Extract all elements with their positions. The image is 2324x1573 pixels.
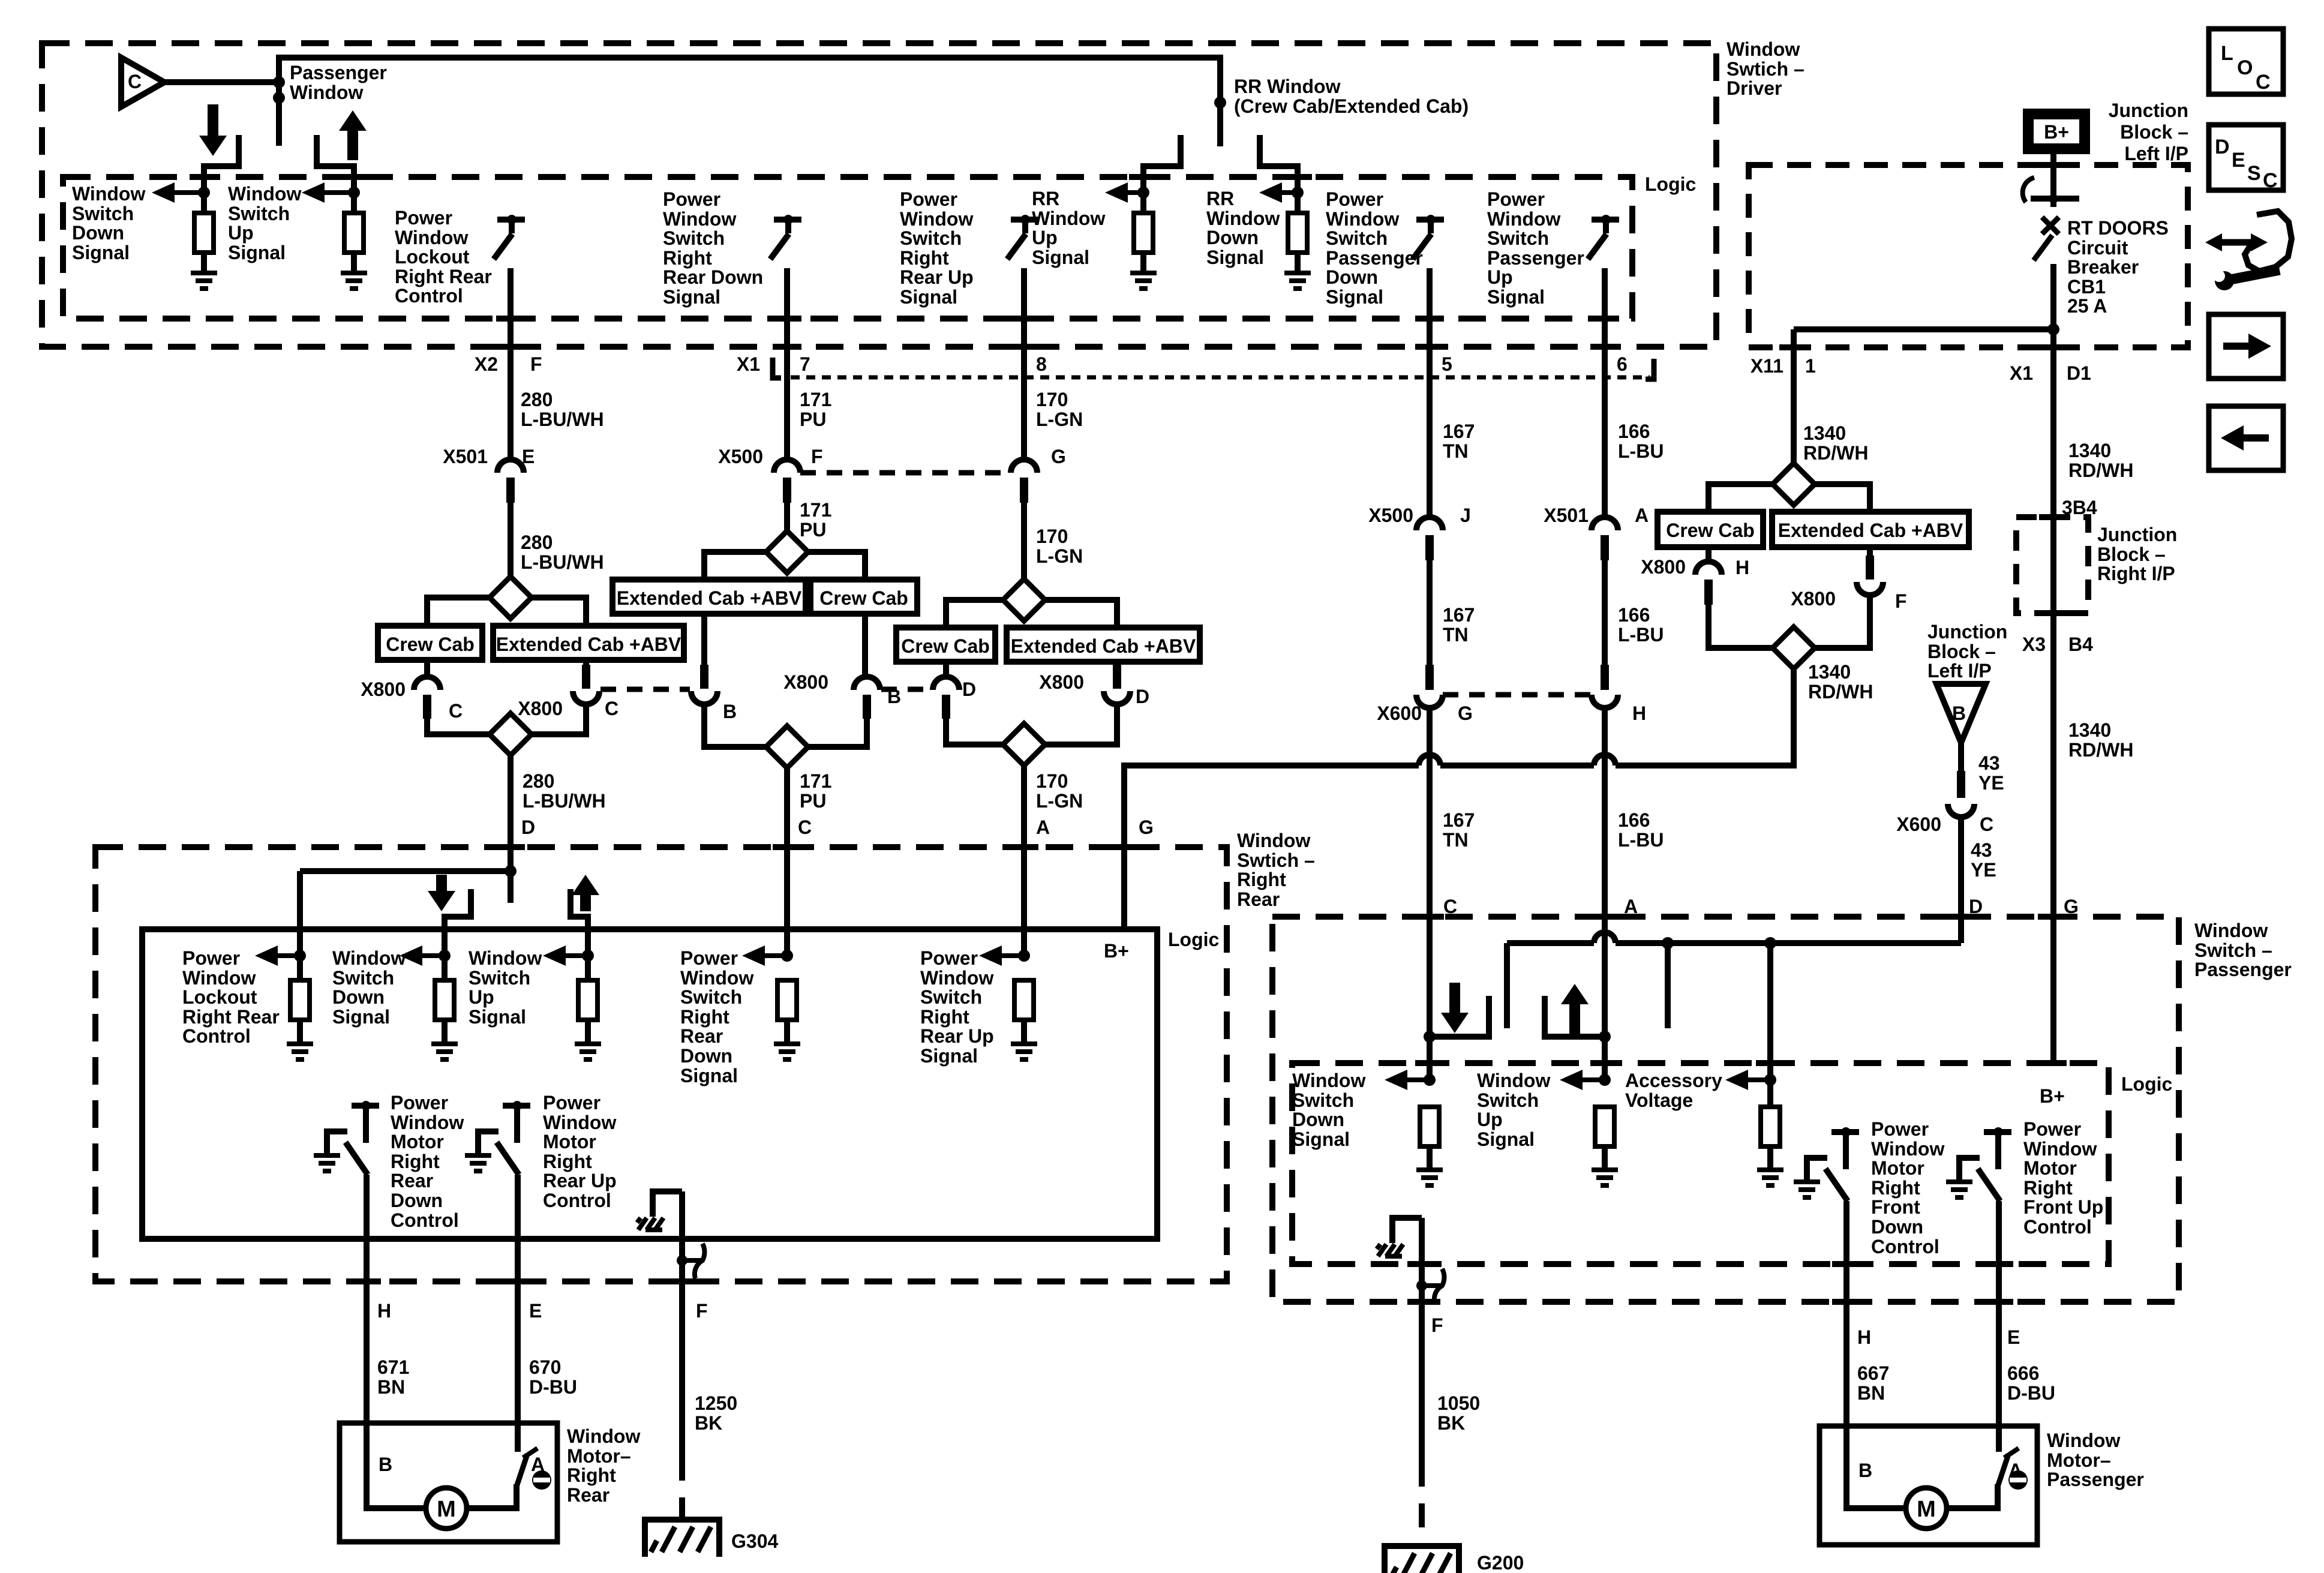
wire 280 below X501 [508, 503, 514, 577]
box crew cab 280 [378, 626, 482, 660]
ground accessory voltage [1757, 1170, 1783, 1185]
motor M passenger [1906, 1488, 1947, 1529]
wire 171 below X500 [784, 503, 790, 531]
wire 1340 down and across [1124, 669, 1794, 929]
wire 170 to right rear box [1021, 766, 1027, 956]
arrow window switch down signal pass [1385, 1070, 1430, 1090]
label RR window up signal [1032, 188, 1105, 268]
label window switch passenger [2194, 920, 2292, 980]
wire 171 upper [784, 268, 790, 460]
resistor power window lockout control [290, 980, 310, 1044]
svg-text:171: 171 [800, 389, 831, 410]
svg-text:Right: Right [567, 1464, 616, 1486]
svg-text:D-BU: D-BU [2007, 1382, 2055, 1404]
wire motor up control [515, 1175, 521, 1423]
label 1250 BK [695, 1392, 737, 1434]
svg-text:X800: X800 [1039, 671, 1084, 693]
svg-text:Control: Control [395, 285, 463, 307]
wire RR ground down [679, 1191, 685, 1457]
label logic right rear [1168, 929, 1219, 950]
label 280 mid [521, 532, 604, 573]
svg-text:Junction: Junction [1927, 621, 2007, 643]
label 1050 BK [1437, 1392, 1480, 1434]
resistor window switch up signal [344, 213, 364, 273]
svg-text:G200: G200 [1477, 1552, 1524, 1573]
connector X800 C ext [518, 691, 618, 719]
svg-text:L: L [2221, 42, 2233, 65]
svg-text:Passenger: Passenger [1487, 247, 1584, 269]
svg-text:E: E [2232, 149, 2245, 172]
svg-text:Logic: Logic [1168, 929, 1219, 950]
svg-text:Switch: Switch [1477, 1089, 1539, 1111]
label B+ passenger [2040, 1085, 2065, 1107]
connector pin 5 [1442, 353, 1452, 375]
svg-text:Junction: Junction [2097, 524, 2177, 545]
wire 166 lower [1602, 708, 1608, 1080]
label window switch up signal [228, 183, 301, 263]
splice diamond 280 lower [490, 713, 532, 755]
wire top feed rail [279, 58, 1220, 146]
node window switch up signal RR [582, 950, 594, 962]
svg-text:RT DOORS: RT DOORS [2067, 217, 2169, 239]
label 43 YE upper [1978, 752, 2004, 794]
label power window motor right rear down control [391, 1092, 464, 1231]
node junction passenger window [273, 76, 285, 104]
box crew cab 171 [810, 580, 917, 614]
junction block right IP dashed box [2016, 517, 2088, 613]
wire motor front down control [1843, 1201, 1849, 1426]
wire ext cab path 1340 [1815, 484, 1870, 512]
label pin A right rear [1036, 816, 1050, 838]
svg-text:D1: D1 [2067, 362, 2091, 384]
wire crew cab path 280 [427, 598, 490, 626]
label power window motor right front down control [1871, 1118, 1944, 1257]
svg-text:Swtich –: Swtich – [1727, 58, 1804, 80]
svg-text:Down: Down [332, 986, 385, 1008]
wire RR switch down contact stub [1260, 135, 1298, 213]
wire 43 YE lower [1958, 817, 1964, 943]
svg-text:Motor–: Motor– [2047, 1449, 2111, 1471]
connector pin X11 1 [1750, 355, 1816, 377]
svg-text:Right: Right [680, 1006, 729, 1028]
svg-text:H: H [1632, 703, 1646, 724]
wire crew 170 to X800 [943, 662, 949, 677]
svg-text:BK: BK [1437, 1412, 1465, 1434]
svg-text:280: 280 [521, 389, 553, 410]
svg-text:Window: Window [228, 183, 301, 205]
svg-text:280: 280 [523, 770, 554, 792]
node window switch down signal RR [439, 950, 451, 962]
svg-text:C: C [2256, 71, 2271, 94]
connector pin 6 [1617, 353, 1628, 375]
svg-text:O: O [2237, 56, 2253, 79]
svg-text:RR: RR [1206, 188, 1234, 209]
node passenger up pole [1662, 937, 1674, 949]
svg-text:C: C [2263, 169, 2278, 192]
svg-text:RR: RR [1032, 188, 1059, 209]
power B+ box [2023, 109, 2090, 154]
svg-text:Window: Window [395, 227, 468, 248]
svg-text:L-GN: L-GN [1036, 790, 1083, 812]
wire crew 280 to splice [427, 719, 490, 734]
svg-text:Switch –: Switch – [2194, 939, 2272, 961]
svg-text:170: 170 [1036, 389, 1068, 410]
svg-text:1: 1 [1805, 355, 1816, 377]
label pin E RR [529, 1300, 542, 1322]
connector X1 bracket left [737, 353, 810, 378]
junction block left IP dashed box [1749, 165, 2188, 347]
svg-text:Passenger: Passenger [2047, 1469, 2144, 1490]
svg-text:Window: Window [543, 1112, 616, 1133]
svg-text:Signal: Signal [920, 1045, 978, 1067]
svg-text:X1: X1 [2010, 362, 2033, 384]
svg-text:Right Rear: Right Rear [182, 1006, 280, 1028]
svg-text:Right Rear: Right Rear [395, 266, 492, 287]
svg-text:Right: Right [900, 247, 949, 269]
wire right rear up stub [571, 889, 588, 980]
svg-text:Control: Control [391, 1209, 459, 1231]
switch power window motor right front down control [1794, 1127, 1859, 1201]
label pin H pass [1857, 1326, 1871, 1348]
svg-text:170: 170 [1036, 770, 1068, 792]
svg-text:Signal: Signal [332, 1006, 390, 1028]
svg-text:X800: X800 [1791, 588, 1836, 610]
svg-text:Right: Right [1871, 1177, 1920, 1199]
wire lockout control branch [297, 871, 303, 980]
wire RR ground dashed [679, 1457, 685, 1520]
svg-text:PU: PU [800, 519, 826, 541]
wire switch up contact stub [317, 135, 354, 213]
icon box LOC [2209, 29, 2283, 94]
ground G304 [645, 1520, 778, 1557]
svg-text:Window: Window [567, 1425, 640, 1447]
box extended cab 280 [493, 626, 684, 660]
wire ext 1340 to splice [1815, 595, 1870, 648]
svg-text:Power: Power [680, 947, 738, 969]
svg-text:1340: 1340 [2068, 719, 2111, 741]
wire 167 mid [1427, 560, 1433, 666]
svg-text:Up: Up [1032, 227, 1058, 248]
svg-text:C: C [1443, 896, 1457, 917]
connector X800 F ext [1791, 582, 1906, 612]
up arrow passenger switch [1561, 984, 1589, 1034]
svg-text:B+: B+ [2040, 1085, 2065, 1107]
node power window switch right rear up [1018, 950, 1030, 962]
svg-text:F: F [530, 353, 542, 375]
label junction block left IP top [2109, 100, 2188, 164]
window switch right rear logic solid box [142, 929, 1157, 1239]
label window motor passenger [2047, 1430, 2144, 1490]
switch power window passenger up [1588, 215, 1619, 259]
svg-text:Down: Down [391, 1190, 443, 1211]
label pin H RR [377, 1300, 391, 1322]
svg-text:L-BU: L-BU [1618, 624, 1664, 646]
wire accessory voltage branch [1767, 943, 1773, 1107]
connector X501 A [1544, 505, 1649, 560]
ground RR window down signal [1284, 273, 1311, 289]
node window switch up signal pass [1599, 1074, 1611, 1086]
label 1340 below splice [1808, 661, 1873, 703]
connector pin X1 D1 [2010, 362, 2091, 384]
svg-text:S: S [2247, 162, 2261, 185]
wire CB1 to X11 [1794, 326, 2053, 332]
label 1340 X11 upper [1803, 422, 1868, 464]
svg-text:C: C [605, 698, 618, 719]
label logic driver [1645, 173, 1696, 195]
label power window switch right rear down 2 [680, 947, 753, 1086]
down arrow passenger window switch [199, 104, 227, 156]
arrow window switch down signal RR [400, 945, 445, 966]
svg-text:L-BU/WH: L-BU/WH [521, 409, 604, 430]
svg-text:Signal: Signal [663, 286, 720, 308]
wire ext 170 pin [1113, 662, 1121, 689]
svg-text:166: 166 [1618, 421, 1650, 442]
svg-text:F: F [1431, 1314, 1443, 1336]
svg-text:Passenger: Passenger [1326, 247, 1423, 269]
svg-text:B: B [1952, 703, 1966, 724]
svg-text:Window: Window [290, 82, 363, 103]
svg-text:B4: B4 [2068, 634, 2093, 655]
svg-text:Window: Window [1206, 208, 1280, 229]
svg-text:Window: Window [332, 947, 406, 969]
svg-text:TN: TN [1443, 440, 1469, 462]
resistor window switch down signal RR [435, 980, 454, 1044]
svg-text:Down: Down [1206, 227, 1259, 248]
inline splice RR ground [677, 1244, 704, 1278]
motor M right rear [426, 1488, 467, 1529]
node accessory branch [1764, 937, 1776, 949]
svg-text:Window: Window [1032, 208, 1105, 229]
label pin F pass [1431, 1314, 1443, 1336]
svg-text:Motor: Motor [391, 1131, 444, 1152]
svg-text:YE: YE [1971, 859, 1996, 881]
ground G200 [1385, 1546, 1524, 1573]
svg-text:L-BU: L-BU [1618, 440, 1664, 462]
label power window motor right rear up control [543, 1092, 617, 1211]
svg-text:Block –: Block – [2120, 121, 2188, 143]
svg-text:Lockout: Lockout [182, 986, 257, 1008]
node window switch down signal pass [1424, 1074, 1436, 1086]
connector X800 D crew [933, 677, 976, 719]
splice diamond 171 upper [766, 531, 808, 573]
svg-text:B+: B+ [1104, 940, 1129, 962]
svg-text:171: 171 [800, 770, 831, 792]
window switch right rear outer dashed box [95, 847, 1227, 1281]
label power window switch passenger down [1326, 188, 1423, 308]
svg-text:Window: Window [1871, 1138, 1944, 1160]
svg-text:Control: Control [543, 1190, 611, 1211]
wire ext 1340 pin [1866, 547, 1874, 580]
svg-text:Motor: Motor [2023, 1157, 2077, 1179]
svg-text:Passenger: Passenger [290, 62, 387, 83]
svg-text:F: F [811, 446, 823, 467]
label power window switch right rear up 2 [920, 947, 994, 1067]
svg-text:A: A [1635, 505, 1649, 526]
svg-text:Accessory: Accessory [1625, 1070, 1722, 1091]
wire X11 feed [1791, 329, 1797, 463]
wire motor RR B side [367, 1423, 425, 1508]
wire 280 to right rear box [508, 755, 514, 903]
svg-text:Rear: Rear [391, 1170, 433, 1191]
svg-text:167: 167 [1443, 421, 1475, 442]
svg-text:E: E [522, 446, 535, 467]
label pin A RR motor [531, 1454, 545, 1475]
svg-text:Window: Window [1326, 208, 1399, 230]
splice diamond 171 lower [766, 726, 808, 768]
svg-text:Swtich –: Swtich – [1237, 849, 1315, 871]
svg-text:J: J [1460, 505, 1471, 526]
label 43 YE lower [1971, 839, 1996, 881]
svg-text:170: 170 [1036, 526, 1068, 547]
wire 167 upper [1427, 268, 1433, 517]
driver logic dashed box [63, 177, 1632, 319]
resistor window switch down signal pass [1420, 1107, 1439, 1170]
svg-text:Switch: Switch [1292, 1089, 1354, 1111]
wire crew cab path 171 [808, 552, 865, 580]
svg-text:Switch: Switch [228, 203, 290, 224]
svg-text:8: 8 [1036, 353, 1047, 375]
svg-text:166: 166 [1618, 604, 1650, 626]
svg-text:Signal: Signal [72, 242, 130, 263]
wire motor pass B side [1846, 1426, 1905, 1508]
label logic passenger [2121, 1073, 2172, 1095]
label power window lockout right rear control 2 [182, 947, 280, 1047]
box window motor right rear [340, 1423, 557, 1542]
splice diamond 280 upper [490, 577, 532, 619]
label accessory voltage [1625, 1070, 1722, 1111]
svg-text:X600: X600 [1377, 703, 1422, 724]
svg-text:B: B [723, 701, 737, 722]
svg-text:X1: X1 [737, 353, 760, 375]
wire lockout feed horizontal [300, 868, 511, 874]
wire crew 1340 to splice [1709, 605, 1773, 648]
wire motor front up control [1996, 1201, 2002, 1426]
connector X600 G [1377, 665, 1473, 724]
svg-text:Control: Control [182, 1025, 251, 1047]
svg-text:F: F [1895, 590, 1907, 612]
connector pin X3 B4 [2022, 634, 2093, 655]
svg-text:TN: TN [1443, 829, 1469, 851]
svg-text:C: C [798, 816, 812, 838]
label 167 mid [1443, 604, 1475, 646]
window switch passenger outer dashed box [1272, 917, 2179, 1302]
wire ext 170 to splice [1045, 704, 1117, 745]
svg-text:Up: Up [1487, 266, 1513, 288]
svg-text:Window: Window [182, 967, 256, 989]
svg-text:X3: X3 [2022, 634, 2046, 655]
wire RR switch up contact stub [1143, 135, 1181, 213]
wire passenger up pole [1665, 943, 1671, 1028]
svg-text:TN: TN [1443, 624, 1469, 646]
label 171 upper [800, 389, 831, 430]
label 170 mid [1036, 526, 1083, 567]
svg-text:A: A [1624, 896, 1638, 917]
ground window switch up signal [341, 273, 367, 289]
svg-text:Driver: Driver [1727, 77, 1782, 99]
svg-text:Rear: Rear [1237, 888, 1280, 910]
svg-text:Signal: Signal [469, 1006, 526, 1028]
svg-text:Window: Window [1487, 208, 1560, 230]
svg-text:L-GN: L-GN [1036, 409, 1083, 430]
label 1340 right upper [2068, 440, 2133, 481]
label B+ right rear [1104, 940, 1129, 962]
svg-text:Power: Power [543, 1092, 600, 1113]
node RR window down signal [1292, 187, 1304, 199]
svg-text:Front Up: Front Up [2023, 1196, 2103, 1218]
label junction block right IP [2097, 524, 2177, 584]
svg-text:Window: Window [1477, 1070, 1550, 1091]
svg-text:Crew Cab: Crew Cab [1666, 520, 1755, 541]
svg-text:Switch: Switch [1326, 227, 1388, 249]
node RR window up signal [1137, 187, 1149, 199]
label pin D passenger [1969, 896, 1983, 917]
svg-text:L-BU/WH: L-BU/WH [523, 790, 606, 812]
box extended cab 170 [1007, 628, 1200, 662]
svg-text:43: 43 [1971, 839, 1992, 861]
svg-text:B: B [1858, 1460, 1872, 1481]
svg-text:X501: X501 [1544, 505, 1589, 526]
up arrow passenger window switch [339, 110, 367, 160]
svg-text:RD/WH: RD/WH [2068, 460, 2133, 481]
wire ext 280 to splice [532, 704, 586, 734]
connector X800 B ext [691, 691, 737, 722]
svg-text:Window: Window [1727, 38, 1800, 60]
arrow window switch up signal [302, 182, 354, 203]
svg-text:Signal: Signal [228, 242, 286, 263]
svg-text:X500: X500 [718, 446, 763, 467]
label window switch up signal pass [1477, 1070, 1550, 1150]
svg-text:Rear Up: Rear Up [920, 1025, 994, 1047]
resistor power window switch right rear up [1014, 980, 1034, 1044]
resistor RR window down signal [1288, 213, 1307, 273]
svg-text:Power: Power [1487, 188, 1545, 210]
wire RR ground hook [653, 1191, 682, 1217]
wire ext 171 pin [700, 614, 708, 689]
node power window switch right rear down [781, 950, 793, 962]
svg-text:Crew Cab: Crew Cab [819, 587, 908, 609]
chassis ground pass logic [1377, 1244, 1403, 1256]
box crew cab 1340 [1658, 512, 1763, 547]
wire 166 upper [1602, 268, 1608, 517]
label pin C passenger [1443, 896, 1457, 917]
wire CB1 down [2050, 264, 2056, 1063]
svg-text:Up: Up [1477, 1109, 1503, 1130]
svg-text:PU: PU [800, 790, 826, 812]
svg-text:666: 666 [2007, 1362, 2039, 1384]
svg-text:25 A: 25 A [2067, 295, 2107, 317]
svg-text:Right: Right [391, 1151, 440, 1172]
resistor accessory voltage [1761, 1107, 1780, 1170]
svg-text:Switch: Switch [920, 986, 982, 1008]
label 671 BN [377, 1356, 409, 1398]
svg-text:Up: Up [228, 222, 254, 244]
label RT DOORS circuit breaker CB1 [2067, 217, 2169, 317]
svg-text:Rear Up: Rear Up [543, 1170, 617, 1191]
svg-text:Switch: Switch [680, 986, 742, 1008]
connector X800 H crew [1641, 556, 1749, 605]
svg-text:Window: Window [900, 208, 973, 230]
connector X500 link dashed [800, 470, 1011, 476]
svg-text:G: G [1051, 446, 1066, 467]
arrow RR window up signal [1105, 182, 1143, 203]
wire ext 280 pin [582, 660, 590, 689]
svg-text:Right: Right [543, 1151, 592, 1172]
svg-text:Power: Power [395, 207, 452, 229]
label 670 DBU [529, 1356, 577, 1398]
connector X800 B crew [783, 671, 901, 719]
svg-text:B: B [379, 1454, 392, 1475]
label passenger window [290, 62, 387, 103]
